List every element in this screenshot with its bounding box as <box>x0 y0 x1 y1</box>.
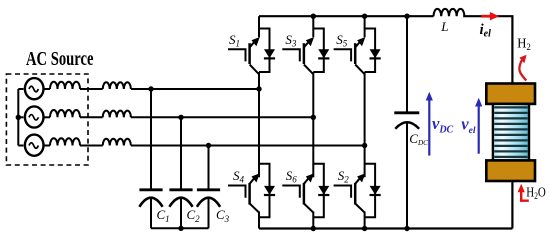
node phase A / C1 tap <box>148 86 153 91</box>
arrow vel (blue) <box>475 98 482 154</box>
node phase C / C3 tap <box>206 143 211 148</box>
transistor S6 with antiparallel diode <box>282 164 329 229</box>
svg-text:S3: S3 <box>285 32 297 49</box>
electrolyzer top cap <box>486 84 535 104</box>
svg-text:CDC: CDC <box>409 131 428 147</box>
wire riser C2 <box>180 117 182 189</box>
node phase B / C2 tap <box>178 115 183 120</box>
node bottom rail S6 <box>311 226 316 231</box>
svg-text:H2O: H2O <box>526 184 546 201</box>
transistor S2 with antiparallel diode <box>334 164 381 229</box>
node phase B leg <box>311 115 316 120</box>
arrow iel (red) <box>481 12 499 20</box>
wire phase C: source to coil <box>44 145 50 147</box>
wire phase B to converter <box>131 116 313 118</box>
wire DC top rail <box>259 15 434 17</box>
svg-text:L: L <box>440 19 448 34</box>
wire phase A to converter <box>131 88 259 90</box>
electrolyzer cell stack body <box>493 104 529 160</box>
wire capacitor common bottom <box>151 227 209 229</box>
wire stub V1 to bus <box>18 88 23 90</box>
node top rail S3 <box>311 14 316 19</box>
svg-text:vDC: vDC <box>432 114 454 136</box>
transistor S5 with antiparallel diode <box>334 16 381 74</box>
node on AC bus <box>16 115 21 120</box>
line inductor phase C <box>103 139 131 146</box>
wire stub V3 to bus <box>18 145 23 147</box>
node phase C leg <box>362 143 367 148</box>
svg-text:C1: C1 <box>157 207 170 224</box>
AC source V3 (phase C) <box>25 135 44 156</box>
arrow H2O in (red) <box>518 184 529 201</box>
line inductor phase B <box>103 111 131 118</box>
wire phase A mid <box>80 88 103 90</box>
wire electrolyzer bottom <box>511 181 513 229</box>
wire phase C mid <box>80 145 103 147</box>
svg-text:H2: H2 <box>517 37 531 54</box>
inductor phase A source side <box>50 82 80 89</box>
capacitor C3 <box>197 190 220 229</box>
node bottom rail Cdc <box>404 226 409 231</box>
capacitor C1 <box>139 190 162 229</box>
inductor phase C source side <box>50 138 80 145</box>
svg-text:C2: C2 <box>187 207 201 224</box>
wire phase C to converter <box>131 145 365 147</box>
inductor L <box>434 9 465 16</box>
arrow H2 out (red curved) <box>519 55 526 81</box>
wire riser C1 <box>150 89 152 189</box>
arrow vDC (blue) <box>426 92 433 156</box>
wire DC bottom rail <box>259 227 512 229</box>
wire phase A: source to coil <box>44 88 50 90</box>
svg-text:AC Source: AC Source <box>26 49 94 70</box>
wire leg C midsection <box>364 72 366 177</box>
svg-text:S5: S5 <box>336 32 348 49</box>
AC source V2 (phase B) <box>25 106 44 127</box>
AC source V1 (phase A) <box>25 78 44 99</box>
dashed box AC source boundary <box>6 74 88 165</box>
capacitor CDC <box>394 113 419 129</box>
wire riser C3 <box>208 146 210 190</box>
transistor S1 with antiparallel diode <box>228 16 275 74</box>
node top rail Cdc <box>404 14 409 19</box>
wire stub V2 to bus <box>18 116 23 118</box>
wire Cdc bottom <box>406 123 408 229</box>
svg-text:S2: S2 <box>338 168 350 185</box>
wire phase B mid <box>80 116 103 118</box>
wire L to electrolyzer <box>463 16 512 83</box>
transistor S3 with antiparallel diode <box>282 16 329 74</box>
svg-text:S1: S1 <box>229 32 240 49</box>
svg-text:C3: C3 <box>216 207 230 224</box>
wire Cdc top <box>406 16 408 112</box>
svg-text:vel: vel <box>461 115 476 137</box>
AC bus wire <box>17 89 19 146</box>
node bottom rail S2 <box>362 226 367 231</box>
transistor S4 with antiparallel diode <box>228 164 275 229</box>
node phase A leg <box>256 86 261 91</box>
line inductor phase A <box>103 82 131 89</box>
node top rail S5 <box>362 14 367 19</box>
electrolyzer bottom cap <box>486 160 535 181</box>
wire phase B: source to coil <box>44 116 50 118</box>
svg-text:S6: S6 <box>286 168 298 185</box>
wire leg A midsection <box>258 72 260 177</box>
svg-text:S4: S4 <box>233 168 245 185</box>
wire leg B midsection <box>312 72 314 177</box>
inductor phase B source side <box>50 110 80 117</box>
capacitor C2 <box>169 190 192 229</box>
node capacitor bottom <box>178 226 183 231</box>
svg-text:iel: iel <box>480 22 492 40</box>
